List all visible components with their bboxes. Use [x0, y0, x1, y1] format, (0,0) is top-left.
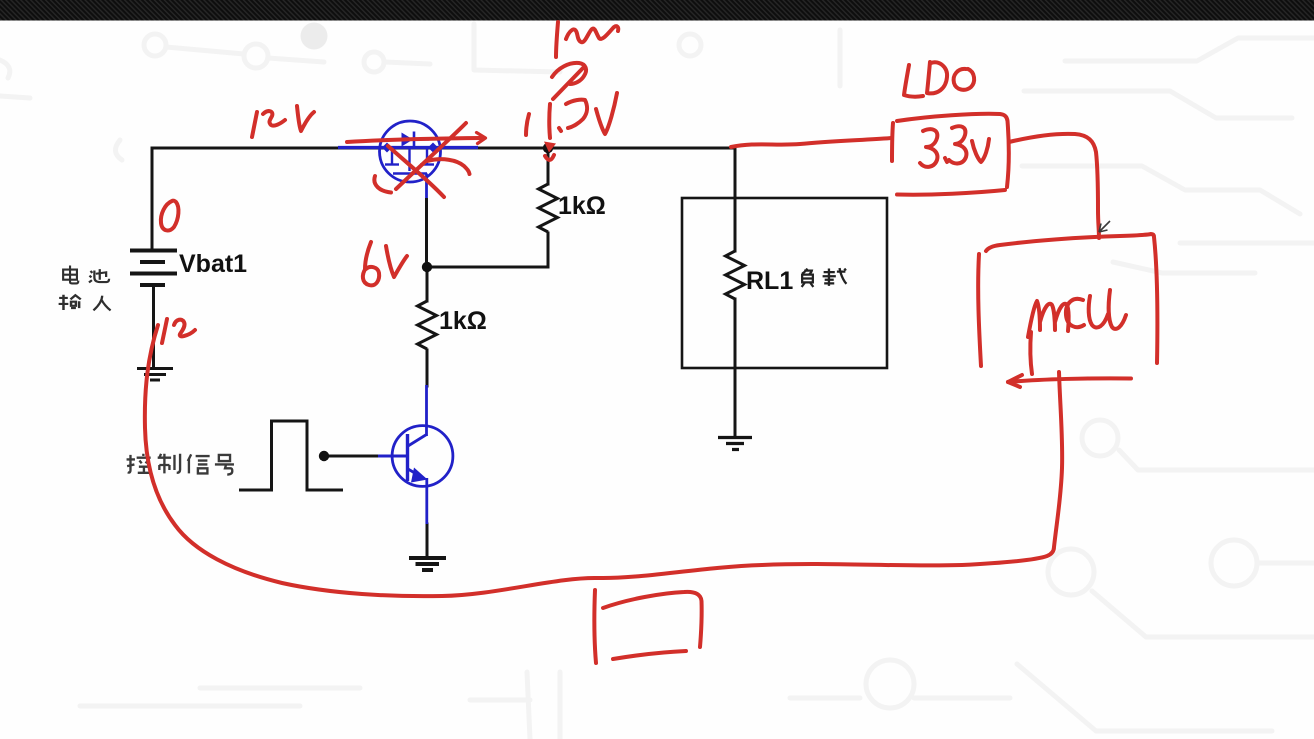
- red arrow up-right: [552, 63, 586, 84]
- red scribble arcs at MOSFET: [374, 176, 391, 193]
- red wire rail to LDO: [731, 138, 891, 147]
- battery Vbat1: [130, 251, 177, 286]
- red note mcu: [1028, 301, 1069, 337]
- MCU bottom bar with left arrow: [1008, 378, 1131, 382]
- red note 3.3v: [920, 129, 937, 167]
- transistor base bar: [406, 434, 409, 481]
- wire R2 bottom lead: [426, 350, 429, 386]
- svg-text:Vbat1: Vbat1: [179, 250, 247, 278]
- wire R1 bottom to node: [427, 233, 548, 267]
- RL1 load box: [682, 198, 887, 368]
- gray pad dot: [301, 23, 328, 50]
- resistor R2 1kΩ: [418, 301, 437, 349]
- node junction dot (11.3V rail): [543, 143, 553, 153]
- red strike-through arrow over MOSFET: [347, 138, 481, 142]
- red note 0 at battery top: [161, 201, 179, 231]
- wire battery bottom lead: [152, 287, 155, 366]
- control pulse waveform: [239, 421, 343, 490]
- red note LDO: [904, 65, 923, 97]
- wire RL1 bottom lead: [734, 299, 737, 437]
- MOSFET blue rail segment: [338, 146, 478, 149]
- red return loop wire: [145, 325, 1062, 596]
- MOSFET legs and gate: [391, 148, 393, 164]
- wire battery top lead: [151, 148, 154, 249]
- transistor base wire: [378, 455, 408, 458]
- MOSFET body diode bar: [413, 132, 416, 148]
- red wire LDO to MCU: [1009, 134, 1099, 238]
- red tick below node: [545, 155, 554, 160]
- MOSFET Q1 body circle: [380, 121, 441, 182]
- wire base pulse to transistor: [329, 455, 380, 458]
- red note 12V on rail: [252, 112, 257, 137]
- MOSFET drain diamond: [428, 143, 438, 153]
- red X cross over MOSFET: [396, 123, 466, 189]
- red square bottom: [594, 590, 596, 663]
- red note 6V: [365, 242, 371, 269]
- red note 12 below battery: [162, 319, 167, 343]
- transistor Q2 circle: [392, 426, 453, 487]
- label 负载 (load): [802, 268, 847, 287]
- MCU box: [986, 234, 1157, 363]
- resistor R1 1kΩ: [539, 184, 558, 232]
- svg-text:1kΩ: 1kΩ: [439, 307, 487, 335]
- mouse cursor: [1099, 221, 1110, 232]
- MOSFET body diode triangle: [402, 133, 414, 147]
- wire drain to gate-divider node (black): [425, 198, 428, 262]
- MOSFET drain lead (blue): [425, 174, 428, 199]
- ground (transistor): [409, 558, 446, 570]
- label 电池 (battery): [63, 265, 109, 283]
- MOSFET source diamond: [382, 143, 392, 153]
- wire R1 top lead: [547, 149, 550, 184]
- transistor collector: [408, 385, 427, 446]
- MOSFET body diode line: [386, 138, 429, 140]
- node dot (pulse output): [319, 451, 329, 461]
- red note 11.3V: [526, 114, 529, 135]
- ground (battery): [137, 369, 173, 381]
- wire RL1 top lead: [734, 148, 737, 251]
- transistor emitter: [408, 469, 427, 524]
- wire transistor emitter to ground: [426, 524, 429, 556]
- svg-text:1kΩ: 1kΩ: [558, 192, 606, 220]
- wire R2 top lead: [426, 267, 429, 301]
- LDO box: [892, 123, 893, 161]
- top black hatched bar: [0, 0, 1314, 21]
- label 控制信号 (control signal): [127, 454, 234, 475]
- resistor RL1: [726, 251, 745, 299]
- red note 1W (top): [556, 22, 558, 57]
- ground (RL1): [718, 438, 752, 450]
- wire top rail 12V: [152, 147, 735, 150]
- svg-text:RL1: RL1: [746, 267, 793, 295]
- transistor emitter arrowhead: [411, 468, 428, 483]
- red arrow mark at node: [544, 142, 556, 153]
- node junction dot (gate divider): [422, 262, 432, 272]
- label 输入 (input): [59, 295, 111, 311]
